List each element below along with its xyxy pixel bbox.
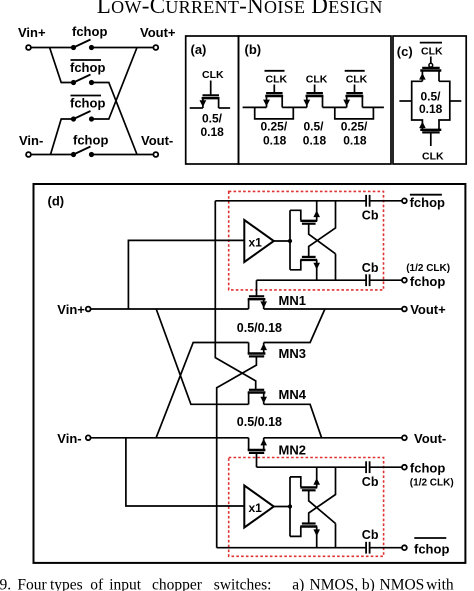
svg-text:0.5/0.18: 0.5/0.18 <box>237 415 282 429</box>
svg-text:fchop: fchop <box>70 60 105 75</box>
svg-text:Vout-: Vout- <box>141 133 173 148</box>
svg-text:(a): (a) <box>191 42 207 57</box>
wire latch right vertical (bottom) <box>335 524 337 548</box>
svg-text:LOW-CURRENT-NOISE DESIGN: LOW-CURRENT-NOISE DESIGN <box>97 0 383 18</box>
wire rail left of T1 <box>243 106 267 108</box>
junction buffer output to latch (bottom) <box>288 504 292 508</box>
label CLK-bar (T1) <box>266 74 288 86</box>
svg-text:0.5/: 0.5/ <box>304 120 325 134</box>
svg-text:9.Fourtypesofinputchopperswitc: 9.Fourtypesofinputchopperswitches:a)NMOS… <box>0 576 454 591</box>
svg-text:fchop: fchop <box>414 542 449 557</box>
svg-text:CLK: CLK <box>422 151 444 163</box>
label fchop-bar (bottom) <box>414 542 449 557</box>
svg-text:x1: x1 <box>249 236 263 250</box>
svg-text:(b): (b) <box>245 42 262 57</box>
svg-text:0.18: 0.18 <box>263 133 287 147</box>
transistor MN4 <box>248 390 267 405</box>
red dashed box top bootstrap driver <box>229 191 384 290</box>
wire latch left vertical (top) <box>289 210 291 269</box>
node fchop-bar boosted rail (top) <box>215 200 366 202</box>
wire rail4 cap to terminal <box>370 547 402 549</box>
terminal fchop-bar (bottom) <box>402 545 407 550</box>
wire Vin- branch to switch S3 <box>51 119 74 155</box>
svg-text:x1: x1 <box>249 501 263 515</box>
wire buffer output (bottom) <box>274 506 290 508</box>
wire left lead (c) <box>399 100 411 102</box>
transistor latch M3 (bottom latch upper) <box>290 467 320 490</box>
svg-text:Vin+: Vin+ <box>18 25 46 40</box>
terminal Vin- (d) <box>86 435 91 440</box>
box (d) frame <box>34 184 466 563</box>
svg-text:fchop: fchop <box>73 133 108 148</box>
box (c) frame <box>393 36 466 164</box>
wire latch right vertical (top) <box>335 254 337 280</box>
wire Vin- to switch S4 <box>31 154 74 156</box>
transistor latch M4 (bottom latch lower) <box>290 524 320 548</box>
overline CLK (T3) <box>345 70 365 72</box>
wire rail3 cap to terminal <box>370 466 402 468</box>
wire S4 to Vout- <box>92 154 154 156</box>
transistor (a) NMOS 0.5/0.18 <box>200 81 220 109</box>
wire Vin+ to MN1 source <box>91 308 249 310</box>
wire buffer input (top) from Vin+ <box>128 240 244 309</box>
wire S2 to crossing to Vout- <box>92 83 138 155</box>
label fchop-bar (top) <box>410 195 445 210</box>
label CLK-bar (T3) <box>346 74 368 86</box>
svg-text:MN4: MN4 <box>279 387 307 402</box>
box (b) frame <box>239 36 392 164</box>
capacitor Cb (top rail) <box>366 195 370 207</box>
node fchop-bar boosted rail (bottom) <box>217 547 366 549</box>
svg-text:Cb: Cb <box>362 528 379 542</box>
capacitor Cb (rail4) <box>366 542 370 554</box>
junction buffer output to latch (top) <box>288 239 292 243</box>
wire rail2 cap to terminal <box>370 279 402 281</box>
overline CLK (c top) <box>420 42 442 44</box>
svg-text:CLK: CLK <box>421 46 443 58</box>
transistor T2 NMOS 0.5/0.18 <box>303 85 323 108</box>
wire fchop-bar boosted to MN4 gate <box>215 201 255 390</box>
caption figure 9 (clipped at bottom) <box>0 576 454 591</box>
transistor MN1 <box>248 280 267 309</box>
overline CLK (T1) <box>265 70 285 72</box>
svg-text:Vout-: Vout- <box>414 431 446 446</box>
svg-text:0.25/: 0.25/ <box>341 120 368 134</box>
wire latch cross-coupling (top latch) <box>309 224 336 254</box>
label CLK-bar (c top) <box>421 46 443 58</box>
transistor latch M1 (top latch upper) <box>290 201 320 224</box>
switch S1 fchop <box>71 40 94 51</box>
svg-text:MN2: MN2 <box>279 442 306 457</box>
overline of fchop-bar (S3) <box>71 95 102 97</box>
label fchop-bar (S2) <box>70 60 105 75</box>
wire latch cross-coupling (bottom latch) <box>309 490 336 523</box>
transistor MN3 <box>248 343 267 357</box>
terminal fchop-bar (top) <box>402 198 407 203</box>
overline fchop-bar (bottom) <box>414 537 446 539</box>
title LOW-CURRENT-NOISE DESIGN (clipped at top) <box>97 0 383 18</box>
svg-text:0.18: 0.18 <box>201 125 225 139</box>
svg-text:(d): (d) <box>48 194 65 209</box>
overline fchop-bar (top) <box>410 194 442 196</box>
terminal Vin+ <box>26 45 31 50</box>
terminal fchop (bottom) <box>402 465 407 470</box>
transmission gate body (c) <box>412 81 450 130</box>
capacitor Cb (rail2) <box>366 274 370 286</box>
svg-text:0.18: 0.18 <box>343 133 367 147</box>
op-amp buffer x1 (top) <box>244 220 273 262</box>
svg-text:Vout+: Vout+ <box>140 25 176 40</box>
svg-text:0.5/: 0.5/ <box>202 112 223 126</box>
wire Vin- to MN2 source <box>91 437 249 439</box>
svg-text:(1/2 CLK): (1/2 CLK) <box>410 477 454 488</box>
terminal Vout- <box>153 152 158 157</box>
svg-text:CLK: CLK <box>202 69 224 81</box>
transistor PMOS (c) <box>419 57 441 82</box>
terminal fchop (top) <box>402 278 407 283</box>
label fchop-bar (S3) <box>70 96 105 111</box>
svg-text:MN3: MN3 <box>279 346 306 361</box>
svg-text:Cb: Cb <box>362 475 379 489</box>
terminal Vout- <box>402 435 407 440</box>
svg-text:(1/2 CLK): (1/2 CLK) <box>406 263 450 274</box>
transistor T3 dummy 0.25/0.18 <box>343 85 363 108</box>
wire latch left vertical (bottom) <box>289 477 291 537</box>
transistor T1 dummy 0.25/0.18 <box>263 85 283 108</box>
svg-text:fchop: fchop <box>410 274 445 289</box>
wire MN1 drain to Vout+ <box>264 308 402 310</box>
svg-text:(c): (c) <box>397 44 413 59</box>
node fchop boosted rail (top) <box>257 279 367 281</box>
switch S2 fchop-bar <box>71 75 94 86</box>
wire rail right of T3 <box>362 106 384 108</box>
svg-text:Vout+: Vout+ <box>410 302 446 317</box>
red dashed box bottom bootstrap driver <box>229 458 384 557</box>
terminal Vin+ (d) <box>86 307 91 312</box>
terminal Vin- <box>26 152 31 157</box>
transistor NMOS (c) <box>419 122 441 147</box>
svg-text:CLK: CLK <box>306 74 328 86</box>
terminal Vout+ <box>153 45 158 50</box>
wire MN3 drain to Vout+ <box>264 309 325 343</box>
svg-text:fchop: fchop <box>70 96 105 111</box>
svg-text:Cb: Cb <box>362 209 379 223</box>
svg-text:Vin-: Vin- <box>19 133 43 148</box>
wire T2 to T3 <box>323 106 347 108</box>
wire Vin+ diagonal to MN4 source <box>156 309 248 404</box>
transistor latch M2 (top latch lower) <box>290 257 320 280</box>
box (a) frame <box>186 36 239 164</box>
wire Vin- diagonal to MN3 source <box>156 343 249 438</box>
svg-text:0.18: 0.18 <box>303 133 327 147</box>
wire MN2 drain to Vout- <box>264 437 402 439</box>
wire Vin+ branch to switch S2 <box>50 48 74 83</box>
svg-text:fchop: fchop <box>72 24 107 39</box>
svg-text:0.25/: 0.25/ <box>261 120 288 134</box>
svg-text:MN1: MN1 <box>279 293 306 308</box>
wire drain lead (a) <box>219 107 231 109</box>
svg-text:CLK: CLK <box>346 74 368 86</box>
wire source lead (a) <box>190 107 203 109</box>
node fchop boosted rail (bottom) <box>257 466 367 468</box>
terminal Vout+ <box>402 307 407 312</box>
op-amp buffer x1 (bottom) <box>244 486 273 528</box>
wire short S-D of T1 <box>255 107 294 119</box>
capacitor Cb (rail3) <box>366 461 370 473</box>
wire Vin+ to switch S1 <box>31 47 74 49</box>
switch S3 fchop-bar <box>71 111 94 122</box>
wire buffer output (top) <box>274 240 290 242</box>
overline of fchop-bar (S2) <box>71 59 102 61</box>
wire T1 to T2 <box>282 106 307 108</box>
wire short S-D of T3 <box>335 107 374 119</box>
wire buffer input (bottom) from Vin- <box>126 438 244 506</box>
svg-text:fchop: fchop <box>410 195 445 210</box>
svg-text:Vin-: Vin- <box>57 431 81 446</box>
wire right lead (c) <box>450 100 462 102</box>
svg-text:0.5/0.18: 0.5/0.18 <box>237 321 282 335</box>
wire top rail cap to terminal <box>370 200 402 202</box>
transistor MN2 <box>248 438 267 467</box>
wire MN4 drain to Vout- <box>264 404 322 438</box>
svg-text:CLK: CLK <box>266 74 288 86</box>
svg-text:Cb: Cb <box>362 261 379 275</box>
switch S4 fchop <box>71 147 94 158</box>
wire S1 to Vout+ <box>92 47 154 49</box>
wire S3 to crossing to Vout+ <box>92 48 138 120</box>
svg-text:0.18: 0.18 <box>419 102 443 116</box>
svg-text:fchop: fchop <box>410 461 445 476</box>
svg-text:Vin+: Vin+ <box>57 302 85 317</box>
wire fchop-bar boosted (bottom) to MN3 gate <box>217 356 257 547</box>
